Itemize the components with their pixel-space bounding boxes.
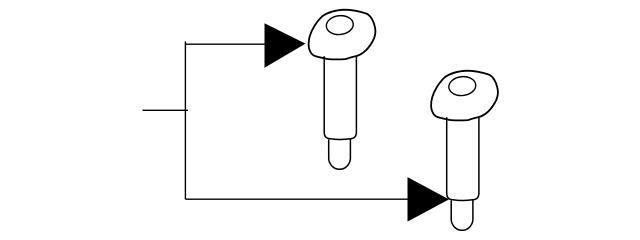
arrowhead 2 <box>408 177 450 222</box>
wire: top leader to arrow <box>185 43 266 45</box>
wire: vertical riser <box>184 42 186 200</box>
wire: left stub <box>143 109 189 111</box>
wire: bottom leader to arrow <box>185 198 409 200</box>
bolt 2 <box>431 71 498 231</box>
arrowhead 1 <box>265 23 306 67</box>
bolt 1 <box>309 10 376 170</box>
